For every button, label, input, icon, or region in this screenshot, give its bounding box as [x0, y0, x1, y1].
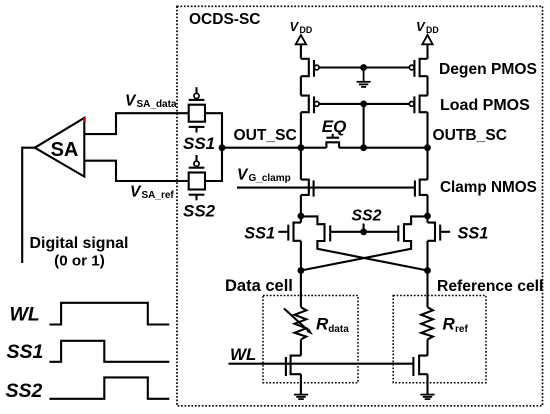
wire left branch between PMOS [300, 76, 302, 95]
transistor Degen PMOS left [301, 59, 319, 77]
transistor data access NMOS [286, 356, 301, 394]
variable resistor arrow [284, 308, 313, 335]
node data top [298, 267, 305, 274]
red artifact mark [83, 118, 86, 122]
node ref top [424, 267, 431, 274]
node left mid [298, 213, 305, 220]
svg-text:WL: WL [10, 304, 40, 326]
svg-text:Clamp NMOS: Clamp NMOS [440, 179, 537, 196]
label V_SA_data [125, 93, 177, 111]
svg-text:V: V [130, 184, 142, 201]
svg-text:data: data [328, 324, 349, 335]
wire Load gate to rail [363, 104, 365, 148]
wire SA output to digital signal [22, 148, 35, 263]
svg-text:DD: DD [300, 25, 313, 35]
Reference cell dotted box [393, 296, 486, 383]
power VDD left [290, 19, 313, 35]
wire Degen PMOS common gate [319, 66, 409, 68]
node left branch on rail [298, 144, 305, 151]
node right branch on rail [424, 144, 431, 151]
Data cell dotted box [263, 296, 358, 383]
svg-text:Reference cell: Reference cell [437, 278, 543, 295]
OCDS-SC dashed box [177, 6, 543, 406]
svg-text:R: R [443, 315, 456, 334]
ground (data cell) [294, 395, 308, 400]
svg-text:SS1: SS1 [7, 341, 44, 363]
wire ref branch [426, 271, 428, 308]
svg-text:Load PMOS: Load PMOS [440, 97, 530, 114]
transistor ref access NMOS [413, 356, 427, 394]
transistor SS2-gated left [301, 216, 428, 270]
wire VDD left to Degen PMOS [300, 44, 302, 59]
node rail mid junction [360, 144, 367, 151]
resistor R_data [295, 307, 307, 339]
node Load gate [360, 101, 367, 108]
waveform SS1 [49, 341, 169, 362]
wire OUTB_SC rail [339, 147, 427, 149]
wire data branch [300, 271, 302, 308]
wire V_SA_ref from SA to switch SS2 [84, 161, 188, 181]
svg-text:WL: WL [230, 345, 256, 364]
switch SS1 [189, 87, 205, 132]
transistor Clamp NMOS right [415, 148, 428, 216]
svg-text:ref: ref [455, 324, 468, 335]
svg-text:Digital signal: Digital signal [30, 235, 129, 252]
node Degen gate [360, 64, 367, 71]
svg-text:SS1: SS1 [458, 225, 489, 243]
transistor SS1 right [428, 216, 451, 271]
svg-text:SA: SA [51, 139, 79, 161]
svg-text:OUTB_SC: OUTB_SC [433, 127, 508, 144]
transistor Load PMOS left [301, 96, 319, 114]
resistor R_ref [421, 307, 433, 339]
svg-text:SS2: SS2 [183, 202, 216, 221]
waveform SS2 [49, 377, 169, 398]
wire right branch to OUTB_SC rail [426, 112, 428, 148]
wire SS2 gate line [330, 231, 398, 233]
svg-text:Degen PMOS: Degen PMOS [439, 61, 537, 78]
waveform WL [49, 303, 169, 325]
svg-text:Data cell: Data cell [225, 277, 293, 295]
node SS2 [360, 228, 367, 235]
wire switch SS1 output [205, 113, 222, 148]
transistor SS1 left [278, 216, 301, 271]
label V_G_clamp [237, 166, 291, 184]
svg-text:SS2: SS2 [6, 380, 43, 402]
svg-text:EQ: EQ [322, 117, 347, 136]
svg-text:DD: DD [426, 25, 439, 35]
transistor Degen PMOS right [409, 59, 427, 77]
wire V_G_clamp gate line [237, 187, 415, 189]
ground (ref cell) [420, 395, 434, 400]
switch SS2 [189, 155, 205, 200]
svg-text:V: V [237, 166, 249, 183]
wire R_ref to access transistor [426, 340, 428, 356]
label R_data [316, 315, 349, 335]
svg-text:SA_ref: SA_ref [142, 190, 175, 201]
wire VDD right to Degen PMOS [426, 44, 428, 59]
wire right branch between PMOS [426, 76, 428, 95]
svg-text:R: R [316, 315, 329, 334]
node right mid [424, 213, 431, 220]
svg-text:OUT_SC: OUT_SC [234, 127, 297, 144]
svg-text:SA_data: SA_data [137, 99, 177, 110]
svg-text:SS1: SS1 [244, 225, 275, 243]
wire V_SA_data from SA to switch SS1 [84, 113, 188, 134]
wire WL [229, 363, 414, 365]
svg-text:(0 or 1): (0 or 1) [54, 253, 105, 270]
transistor SS2-gated right [301, 216, 428, 270]
transistor Load PMOS right [409, 96, 427, 114]
node OUT_SC junction [219, 144, 226, 151]
svg-text:G_clamp: G_clamp [249, 173, 291, 184]
svg-text:V: V [290, 19, 300, 34]
svg-text:SS1: SS1 [183, 134, 215, 153]
transistor EQ [326, 142, 339, 147]
ground (Degen gate) [357, 68, 371, 87]
label V_SA_ref [130, 184, 174, 202]
wire R_data to access transistor [300, 340, 302, 356]
svg-text:OCDS-SC: OCDS-SC [189, 11, 260, 28]
svg-text:V: V [125, 93, 137, 110]
wire OUT_SC rail [222, 147, 326, 149]
power VDD right [416, 19, 439, 35]
wire Load PMOS common gate [319, 103, 409, 105]
svg-text:V: V [416, 19, 426, 34]
transistor Clamp NMOS left [301, 148, 314, 216]
label R_ref [443, 315, 469, 335]
wire switch SS2 output [205, 148, 222, 181]
wire left branch to OUT_SC rail [300, 112, 302, 148]
svg-text:SS2: SS2 [352, 208, 382, 225]
op-amp SA [35, 118, 85, 177]
